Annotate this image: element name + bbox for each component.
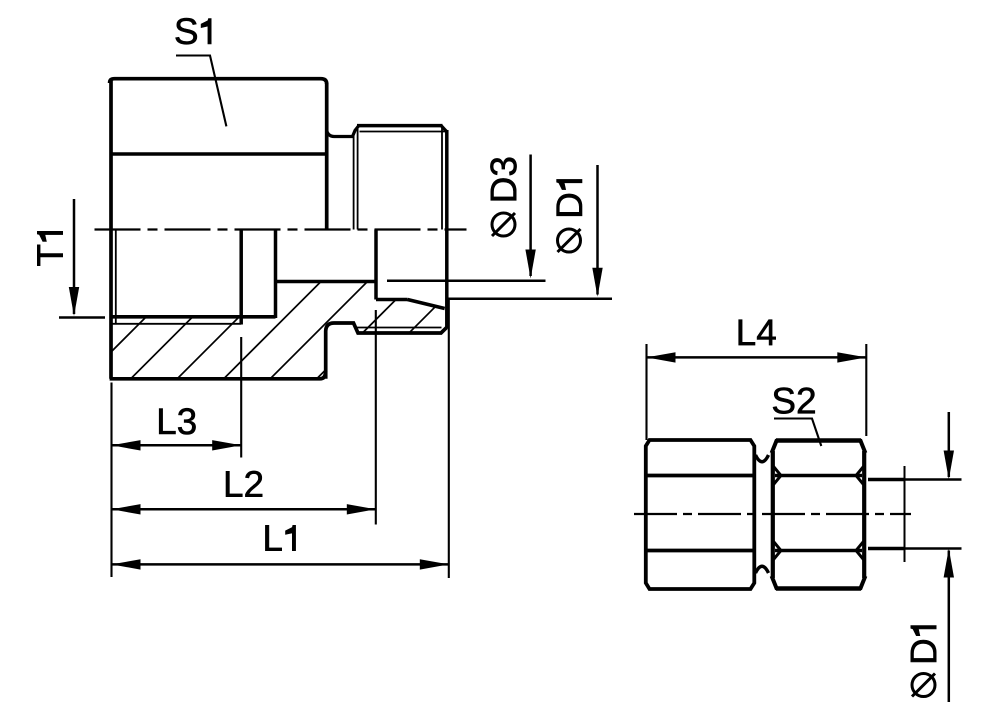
- L1 arrows: [112, 559, 141, 569]
- arrowheads right view: [647, 352, 955, 577]
- D1 right arrows: [944, 451, 954, 480]
- L3 ext line: [240, 337, 242, 458]
- right hex left edge: [771, 451, 775, 578]
- T1 ext line: [59, 316, 105, 319]
- diameter symbol D1 right: [912, 674, 935, 697]
- hex bottom edge: [110, 377, 320, 381]
- label S2: [773, 388, 815, 414]
- hatching: [85, 228, 608, 379]
- D1 arrow: [592, 268, 602, 297]
- L2 dim line: [112, 508, 376, 511]
- stud tip chamfer top: [442, 126, 447, 132]
- label D1: [557, 179, 582, 215]
- D3 dim line: [529, 155, 532, 277]
- label L3: [159, 408, 195, 434]
- L1 ext line: [448, 300, 450, 578]
- bore shoulder: [376, 298, 408, 302]
- D3 ext line: [387, 280, 546, 283]
- right hex top edge: [776, 438, 861, 442]
- left block facet lines: [646, 474, 755, 478]
- stud end mark: [904, 466, 906, 562]
- stud top line: [868, 478, 905, 482]
- right hex facet lines: [775, 474, 862, 478]
- T1 arrow: [69, 287, 79, 316]
- centerline right view: [634, 513, 911, 515]
- stud minor thin line top: [360, 131, 447, 133]
- L4 ext lines: [645, 344, 647, 440]
- label L4: [739, 320, 776, 345]
- neck bottom: [756, 566, 769, 573]
- L3 arrows: [112, 440, 141, 450]
- labels right view: [739, 320, 937, 662]
- label L1: [265, 525, 295, 550]
- arrowheads left view: [69, 250, 603, 570]
- right hex vertex wedges right: [856, 467, 863, 560]
- section: female thread bottom minor: [110, 315, 276, 319]
- stud major line top: [357, 124, 443, 128]
- L2 arrows: [112, 504, 141, 514]
- left ext line: [110, 383, 112, 578]
- stud bottom line: [868, 547, 905, 551]
- S1 leader: [176, 56, 226, 127]
- label D1 right: [911, 626, 936, 662]
- D1 right dim lines: [948, 412, 951, 477]
- diameter symbol D1: [558, 229, 581, 252]
- right hex right edge: [862, 451, 866, 578]
- L4 arrows: [647, 352, 676, 362]
- female thread face thin line: [115, 230, 117, 324]
- neck undercut top: [327, 126, 359, 137]
- L4 dim line: [647, 356, 867, 359]
- right hex corner chamfers: [772, 440, 777, 454]
- hex body top edge: [110, 79, 327, 84]
- L2 ext line: [375, 310, 377, 525]
- neck top: [756, 455, 769, 462]
- T1 dim line: [73, 199, 76, 314]
- cavity bottom face: [274, 230, 278, 319]
- stud ext thin lines: [905, 478, 962, 480]
- bore line: [276, 280, 377, 284]
- section: stud bottom outline: [326, 323, 447, 379]
- label T1: [37, 231, 62, 265]
- D1 dim line: [596, 165, 599, 295]
- bore step face: [374, 230, 378, 300]
- thread runout lines top: [353, 133, 355, 230]
- left block outline: [646, 440, 755, 589]
- diameter symbol D3: [492, 213, 515, 236]
- D3 arrow: [525, 250, 535, 279]
- stud minor thin line bottom: [357, 327, 442, 329]
- right hex bottom edge: [776, 586, 861, 590]
- D1 ext line: [447, 298, 612, 301]
- label D3: [490, 158, 516, 201]
- stud tip chamfer boundary line: [441, 127, 443, 230]
- hex right edge: [325, 83, 329, 230]
- hex facet line: [110, 152, 328, 156]
- cone slant: [408, 300, 445, 309]
- S2 leader: [774, 419, 821, 447]
- L1 dim line: [112, 563, 449, 566]
- stud tip face: [445, 130, 449, 328]
- hex body left edge: [109, 79, 113, 379]
- L3 dim line: [112, 444, 242, 447]
- label S1: [176, 18, 212, 44]
- label L2: [226, 471, 262, 497]
- centerline left view: [95, 228, 467, 230]
- female thread major thin bottom: [112, 323, 241, 325]
- female thread end face: [239, 230, 243, 325]
- right hex vertex wedges left: [774, 467, 781, 560]
- hex bottom right corner: [320, 371, 326, 379]
- labels left view: [37, 18, 582, 551]
